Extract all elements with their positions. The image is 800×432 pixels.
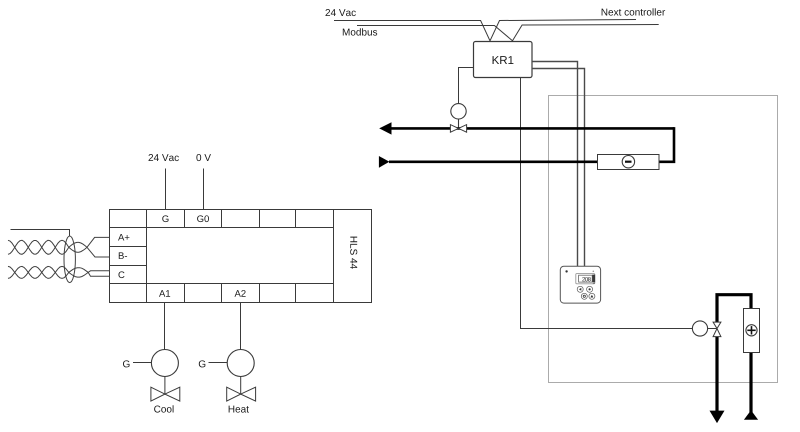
valve actuator circle (top valve): [451, 104, 466, 119]
controller HLS 44 outer box: [110, 210, 372, 303]
terminal label C: [118, 271, 124, 278]
wire actuator to heat valve: [240, 377, 242, 395]
cable shield ellipse: [64, 236, 75, 283]
terminal label B-: [119, 252, 127, 259]
twisted pair 2 wire B (to C): [8, 266, 110, 278]
arrowhead down: [710, 411, 725, 424]
label G (heat): [199, 360, 206, 367]
wire 24 Vac to terminal G: [165, 169, 167, 210]
room unit display: [576, 274, 595, 284]
terminal label G0: [197, 215, 209, 222]
wire KR1 right to room unit wire 2: [532, 69, 585, 267]
top row dividers: [147, 210, 296, 228]
relay box KR1: [474, 42, 533, 78]
arrowhead pipe in (right): [379, 156, 390, 168]
room unit buttons: [577, 286, 583, 292]
arrowhead pipe out (left): [379, 122, 391, 134]
cool valve body: [151, 387, 165, 401]
terminal label G: [162, 215, 168, 222]
room unit display status dot: [593, 271, 595, 273]
left terminal column: [110, 228, 147, 284]
wire G to cool actuator: [133, 362, 152, 364]
bottom terminal row top line: [110, 283, 334, 285]
sensor circle minus: [622, 156, 634, 168]
pipe return (lower thick line, arrow right): [389, 161, 598, 164]
wire Modbus bus to KR1 and next controller: [357, 25, 659, 41]
label 24 Vac (HLS44): [149, 154, 179, 161]
sensor box (flow sensor): [598, 155, 660, 170]
wire KR1 right to room unit wire 1: [532, 62, 578, 267]
twisted pair 2 wire A (to C): [8, 266, 110, 278]
heat valve body: [227, 387, 241, 401]
room boundary box: [549, 96, 778, 383]
label 24 Vac (top right): [326, 9, 356, 16]
wire actuator to cool valve: [164, 377, 166, 395]
top terminal row bottom line: [110, 227, 334, 229]
heater element box: [744, 309, 760, 353]
bottom row dividers: [147, 284, 296, 303]
wire actuator stem to valve: [458, 119, 460, 128]
pipe below bottom valve (thick, arrow down): [715, 337, 718, 412]
wire G to heat actuator: [209, 362, 228, 364]
bottom valve actuator circle: [692, 321, 707, 336]
pipe supply (upper thick line, arrow left): [388, 127, 674, 130]
wire KR1 left to valve actuator: [459, 68, 474, 104]
label KR1: [493, 56, 514, 64]
wire KR1 bottom to bottom valve actuator: [521, 78, 693, 329]
terminal label A2: [235, 290, 246, 297]
shield drain wire: [11, 230, 70, 237]
label HLS 44 (rotated): [350, 237, 357, 269]
cool valve actuator circle: [151, 350, 178, 377]
twisted pair 1 wire B (to B-): [8, 240, 110, 257]
wire actuator to bottom valve: [708, 328, 717, 330]
bottom valve body (vertical bowtie): [713, 322, 721, 328]
wire A2 to heat valve actuator: [240, 303, 242, 350]
heater circle plus: [746, 325, 757, 336]
heat valve actuator circle: [227, 350, 254, 377]
label 0 V: [196, 154, 211, 161]
label Modbus: [343, 28, 377, 35]
minus sign: [625, 161, 632, 163]
label Next controller: [602, 8, 665, 15]
arrowhead up (filled triangle): [744, 410, 758, 419]
twisted pair 1 wire A (to A+): [8, 237, 110, 254]
pipe below heater (thick, arrow up): [749, 353, 752, 414]
label Heat: [229, 406, 249, 413]
room unit (thermostat) body: [560, 266, 600, 303]
wire 24 Vac supply to KR1 and next controller: [334, 20, 636, 41]
pipe corner down to sensor: [659, 127, 674, 162]
room unit LED: [565, 270, 567, 272]
terminal label A1: [159, 290, 170, 297]
terminal label A+: [118, 234, 129, 241]
wire 0 V to terminal G0: [203, 169, 205, 210]
wire A1 to cool valve actuator: [164, 303, 166, 350]
HLS 44 column separator: [333, 210, 335, 303]
label G (cool): [123, 360, 130, 367]
pipe bottom valve to heater (thick): [717, 295, 751, 323]
valve body (top valve, bowtie): [450, 125, 458, 133]
label Cool: [154, 405, 173, 412]
